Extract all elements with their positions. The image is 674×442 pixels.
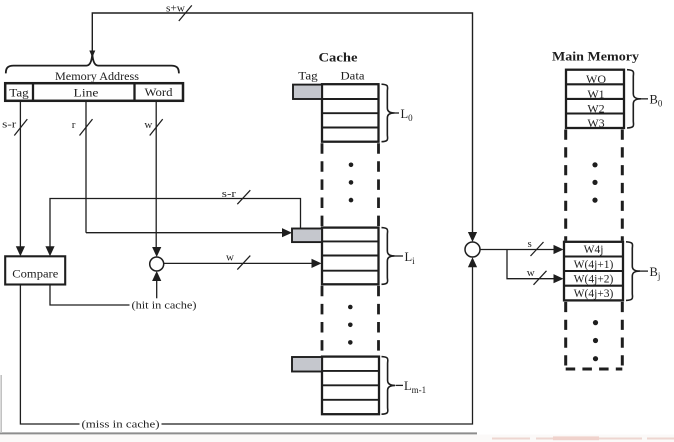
svg-text:Word: Word (145, 85, 173, 99)
svg-text:W1: W1 (587, 87, 604, 101)
svg-text:Memory Address: Memory Address (55, 69, 139, 83)
svg-text:Compare: Compare (12, 266, 58, 280)
svg-text:w: w (144, 119, 152, 131)
svg-text:Line: Line (74, 86, 99, 100)
svg-text:Data: Data (341, 69, 366, 83)
svg-text:s-r: s-r (222, 189, 237, 200)
svg-text:Cache: Cache (319, 49, 358, 64)
svg-text:W3: W3 (587, 116, 604, 130)
svg-text:s-r: s-r (2, 119, 16, 131)
svg-text:W(4j+2): W(4j+2) (574, 274, 614, 286)
svg-text:(hit in cache): (hit in cache) (132, 299, 197, 311)
svg-text:(miss in cache): (miss in cache) (82, 419, 160, 431)
svg-text:w: w (527, 267, 535, 279)
svg-text:r: r (72, 119, 76, 131)
svg-text:s+w: s+w (166, 4, 185, 15)
svg-text:W(4j+1): W(4j+1) (574, 259, 614, 271)
svg-text:Tag: Tag (298, 69, 318, 83)
svg-text:Tag: Tag (9, 86, 29, 100)
svg-text:WO: WO (586, 72, 606, 86)
svg-text:s: s (528, 238, 532, 250)
svg-text:W4j: W4j (584, 244, 604, 256)
svg-text:W2: W2 (587, 101, 604, 115)
svg-text:w: w (226, 251, 234, 263)
svg-text:Main Memory: Main Memory (552, 48, 640, 63)
svg-text:W(4j+3): W(4j+3) (574, 288, 614, 300)
